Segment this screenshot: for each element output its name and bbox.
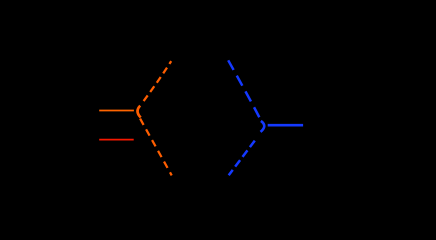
- orange dashed correlation line: lower-left chain: [140, 119, 172, 176]
- blue dashed correlation line: upper-right chain: [228, 60, 259, 117]
- left upper energy level (orange solid): [99, 110, 134, 112]
- blue corner bracket dash: [261, 121, 265, 132]
- left lower energy level (red solid): [99, 139, 134, 141]
- orange corner bracket dash: [138, 106, 141, 118]
- blue dashed correlation line: lower-right chain: [229, 141, 255, 176]
- bottom MO level line (black, invisible on black): [172, 176, 228, 178]
- right energy level (blue solid): [268, 124, 303, 127]
- top MO level line (black, invisible on black): [172, 59, 229, 61]
- orange dashed correlation line: upper-left chain: [142, 61, 171, 103]
